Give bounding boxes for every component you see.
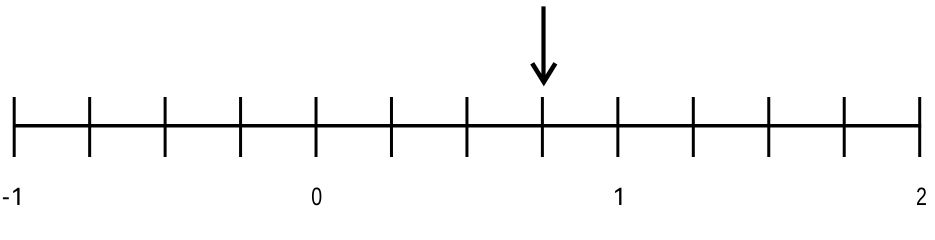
label 2 (917, 187, 926, 205)
arrow pointer at 0.75 (532, 6, 555, 82)
tick -1 (13, 97, 16, 157)
tick 0.75 (541, 97, 544, 157)
tick 0 (315, 97, 318, 157)
tick 0.25 (390, 97, 393, 157)
tick -0.25 (239, 97, 242, 157)
tick 1.25 (692, 97, 695, 157)
tick 0.5 (465, 97, 468, 157)
number line (13, 124, 921, 128)
tick -0.5 (164, 97, 167, 157)
label -1 (3, 188, 20, 205)
tick 2 (918, 97, 921, 157)
tick 1 (616, 97, 619, 157)
label 0 (312, 187, 321, 205)
tick 1.5 (767, 97, 770, 157)
tick -0.75 (88, 97, 91, 157)
tick 1.75 (843, 97, 846, 157)
label 1 (615, 188, 621, 205)
